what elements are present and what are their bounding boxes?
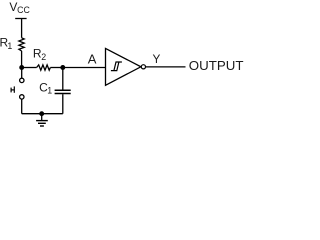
switch S1 actuator shaft xyxy=(11,89,14,91)
switch S1 bottom wire to ground rail xyxy=(21,99,23,114)
wire R1 bottom to node A junction xyxy=(21,51,23,68)
resistor R1 xyxy=(19,38,24,51)
svg-text:1: 1 xyxy=(47,86,52,96)
wire VCC to R1 top xyxy=(21,19,23,38)
wire node A to inverter input xyxy=(63,67,105,69)
inverter U1 hysteresis symbol xyxy=(111,62,122,71)
svg-text:Y: Y xyxy=(153,52,161,66)
svg-text:1: 1 xyxy=(7,41,12,51)
wire ground rail xyxy=(22,113,63,115)
capacitor C1 bottom wire xyxy=(62,94,64,114)
svg-text:2: 2 xyxy=(41,52,46,62)
capacitor C1 top plate xyxy=(55,89,71,91)
ground stub wire xyxy=(41,114,43,121)
node VCC label xyxy=(9,0,30,15)
junction dot (R2 / C1 / gate input) xyxy=(60,65,65,70)
wire junction to R2 xyxy=(22,67,37,69)
switch S1 top contact xyxy=(20,78,24,82)
inverter U1 triangle xyxy=(106,48,141,85)
junction dot (ground tap) xyxy=(39,111,44,116)
capacitor C1 top wire xyxy=(62,68,64,90)
svg-text:OUTPUT: OUTPUT xyxy=(189,58,244,73)
switch S1 bottom contact xyxy=(20,95,24,99)
resistor R2 xyxy=(37,65,51,70)
inverter U1 output bubble xyxy=(141,65,145,69)
wire R2 to C1 junction xyxy=(50,67,62,69)
svg-text:A: A xyxy=(88,51,97,66)
power VCC rail symbol xyxy=(15,18,26,20)
label R2 xyxy=(33,47,46,62)
switch S1 actuator bar xyxy=(13,86,15,92)
wire inverter output to OUTPUT xyxy=(146,66,186,68)
switch S1 button cap xyxy=(10,88,12,93)
label R1 xyxy=(0,36,12,51)
junction dot (R1 / R2 / switch) xyxy=(19,65,24,70)
ground symbol xyxy=(36,121,48,126)
svg-text:CC: CC xyxy=(17,5,30,15)
switch S1 top wire xyxy=(21,68,23,79)
label C1 xyxy=(39,81,52,96)
capacitor C1 bottom plate xyxy=(55,93,71,95)
